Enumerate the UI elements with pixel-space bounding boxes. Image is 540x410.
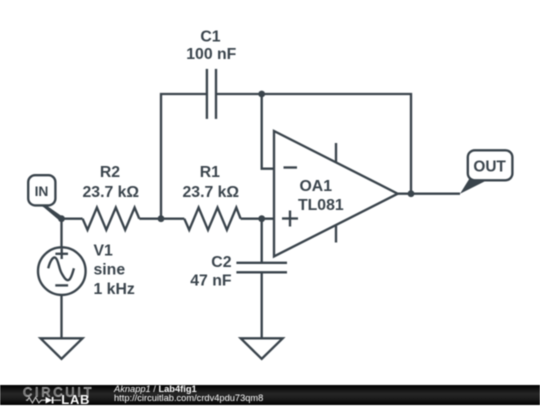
svg-text:R2: R2 <box>100 164 120 181</box>
wire C1 right to output drop <box>216 94 411 194</box>
svg-text:V1: V1 <box>94 242 114 259</box>
ground below V1 <box>41 338 83 359</box>
capacitor C2 <box>190 219 287 339</box>
wire op-amp output <box>398 193 460 195</box>
svg-text:C2: C2 <box>211 254 231 271</box>
svg-text:OA1: OA1 <box>300 178 333 195</box>
capacitor C1 <box>186 28 236 119</box>
svg-text:OUT: OUT <box>473 159 506 176</box>
resistor R1 <box>183 164 241 230</box>
wire R1 to op-amp + input <box>241 218 274 220</box>
ground below C2 <box>241 338 283 359</box>
footer bar <box>0 385 540 406</box>
wire feedback down to inverting input <box>262 94 274 169</box>
wire R2 to R1 through node A <box>139 218 184 220</box>
svg-text:sine: sine <box>94 262 126 279</box>
resistor R2 <box>83 164 140 230</box>
node IN junction <box>58 215 65 222</box>
logo CircuitLab <box>20 385 120 406</box>
node feedback junction on top rail <box>258 91 265 98</box>
svg-text:C1: C1 <box>200 28 220 45</box>
source V1 <box>38 242 135 297</box>
node A junction <box>158 215 165 222</box>
op-amp OA1 <box>274 131 398 256</box>
flag OUT <box>460 150 512 193</box>
svg-text:100 nF: 100 nF <box>186 46 236 63</box>
wire IN node down to V1 <box>60 219 62 248</box>
wire IN node to R2 <box>62 218 83 220</box>
wire V1 to ground <box>60 295 62 339</box>
svg-text:TL081: TL081 <box>298 197 344 214</box>
svg-text:IN: IN <box>35 184 49 199</box>
svg-text:1 kHz: 1 kHz <box>94 281 135 298</box>
wire node A up to top rail <box>161 94 207 219</box>
svg-text:LAB: LAB <box>61 392 90 405</box>
svg-text:23.7 kΩ: 23.7 kΩ <box>83 184 140 201</box>
svg-text:R1: R1 <box>200 164 220 181</box>
node output junction <box>408 190 415 197</box>
footer title text <box>114 385 263 403</box>
flag IN <box>28 175 63 221</box>
svg-text:23.7 kΩ: 23.7 kΩ <box>183 184 240 201</box>
svg-text:47 nF: 47 nF <box>190 273 232 290</box>
node + input junction <box>258 215 265 222</box>
